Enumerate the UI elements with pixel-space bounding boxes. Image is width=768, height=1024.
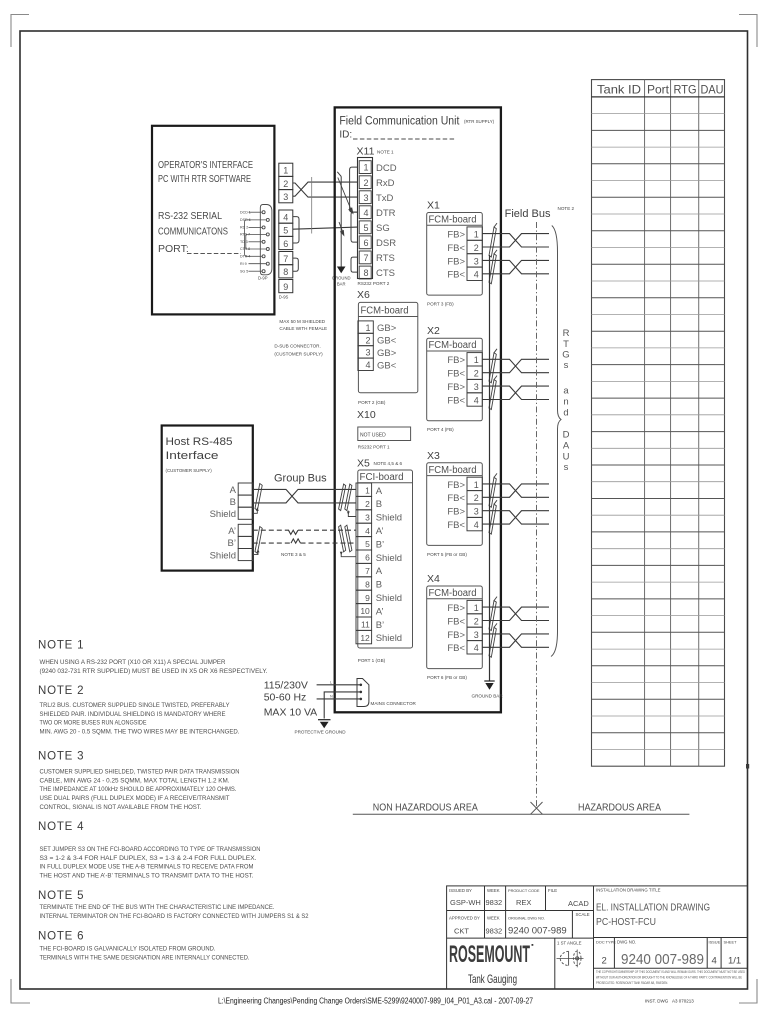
svg-text:4: 4 [712, 956, 717, 967]
svg-text:D: D [563, 430, 570, 441]
svg-text:GSP-WH: GSP-WH [450, 898, 481, 907]
svg-text:FB<: FB< [447, 369, 465, 380]
svg-text:(9240 032-731 RTR SUPPLIED) MU: (9240 032-731 RTR SUPPLIED) MUST BE USED… [40, 668, 268, 675]
svg-text:DOC TYPE: DOC TYPE [596, 940, 616, 945]
svg-text:2: 2 [474, 243, 479, 253]
svg-text:A: A [376, 566, 383, 577]
svg-text:(CUSTOMER SUPPLY): (CUSTOMER SUPPLY) [166, 468, 213, 473]
svg-text:WITHOUT OUR AUTHORIZATION OR B: WITHOUT OUR AUTHORIZATION OR BROUGHT TO … [596, 975, 743, 979]
svg-text:s: s [564, 462, 569, 473]
svg-text:7: 7 [365, 566, 370, 576]
svg-text:ACAD: ACAD [568, 899, 589, 908]
shield symbol X4 pair [489, 597, 497, 631]
svg-text:Shield: Shield [210, 550, 236, 561]
svg-text:B’: B’ [376, 620, 384, 631]
svg-text:NON HAZARDOUS AREA: NON HAZARDOUS AREA [373, 802, 478, 814]
svg-text:6: 6 [283, 239, 288, 249]
svg-text:INST. DWG A3 070213: INST. DWG A3 070213 [645, 999, 694, 1004]
svg-text:INSTALLATION DRAWING TITLE: INSTALLATION DRAWING TITLE [596, 888, 661, 893]
svg-text:NOTE 6: NOTE 6 [38, 931, 84, 943]
svg-text:DCD: DCD [376, 163, 397, 174]
svg-text:(CUSTOMER SUPPLY): (CUSTOMER SUPPLY) [274, 352, 323, 357]
svg-text:R: R [563, 328, 570, 339]
svg-text:115/230V: 115/230V [264, 680, 308, 692]
shield symbol X2 pair [489, 349, 497, 383]
svg-text:THE IMPEDANCE AT 100kHz SHOULD: THE IMPEDANCE AT 100kHz SHOULD BE APPROX… [40, 786, 237, 793]
field bus twisted pair at X3 [482, 511, 549, 524]
field bus twisted pair at X3 [482, 484, 549, 497]
svg-text:SET JUMPER S3 ON THE FCI-BOARD: SET JUMPER S3 ON THE FCI-BOARD ACCORDING… [40, 846, 261, 853]
svg-text:CONTROL, SIGNAL IS NOT AVAILAB: CONTROL, SIGNAL IS NOT AVAILABLE FROM TH… [40, 804, 202, 811]
svg-text:RD 2: RD 2 [240, 226, 248, 230]
area labels [353, 813, 690, 815]
svg-text:BAR: BAR [337, 282, 346, 287]
svg-text:9: 9 [283, 282, 288, 292]
svg-text:4: 4 [474, 395, 479, 405]
svg-text:SG: SG [376, 223, 390, 234]
svg-text:3: 3 [283, 192, 288, 202]
svg-text:NOTE 4: NOTE 4 [38, 821, 84, 833]
svg-text:HAZARDOUS AREA: HAZARDOUS AREA [578, 802, 661, 814]
svg-text:Tank Gauging: Tank Gauging [468, 972, 517, 986]
svg-text:WEEK: WEEK [487, 888, 500, 893]
svg-text:NOTE 1: NOTE 1 [38, 640, 84, 652]
shield symbol X4 pair [489, 623, 497, 657]
svg-text:ISSUE: ISSUE [709, 940, 721, 945]
svg-text:TERMINATE THE END OF THE BUS W: TERMINATE THE END OF THE BUS WITH THE CH… [40, 904, 275, 911]
field bus twisted pair at X2 [482, 359, 549, 372]
svg-text:EL. INSTALLATION DRAWING: EL. INSTALLATION DRAWING [596, 903, 710, 914]
svg-text:PORT:: PORT: [158, 243, 189, 255]
svg-text:11: 11 [361, 620, 370, 630]
shield symbol X2 pair [489, 376, 497, 410]
svg-text:RS232 PORT 1: RS232 PORT 1 [358, 445, 390, 450]
tank table (Tank ID / Port / RTG / DAU) [592, 80, 725, 767]
svg-text:1 ST ANGLE: 1 ST ANGLE [557, 941, 582, 946]
svg-text:CUSTOMER SUPPLIED SHIELDED, TW: CUSTOMER SUPPLIED SHIELDED, TWISTED PAIR… [40, 769, 240, 776]
svg-text:4: 4 [474, 520, 479, 530]
svg-text:INTERNAL TERMINATOR ON THE FCI: INTERNAL TERMINATOR ON THE FCI-BOARD IS … [40, 913, 309, 920]
wire pair A&#39;/B&#39; (dashed, twisted) [253, 530, 356, 543]
svg-text:X3: X3 [427, 450, 440, 462]
svg-text:5: 5 [365, 539, 370, 549]
svg-text:Interface: Interface [166, 450, 219, 462]
svg-text:a: a [563, 386, 569, 397]
svg-text:PROTECTIVE GROUND: PROTECTIVE GROUND [295, 730, 347, 735]
field bus twisted pair at X1 [482, 234, 549, 247]
svg-text:X10: X10 [357, 409, 376, 421]
svg-text:A’: A’ [376, 606, 384, 617]
svg-text:FB<: FB< [447, 643, 465, 654]
svg-text:4: 4 [283, 212, 288, 222]
svg-text:2: 2 [363, 178, 368, 188]
svg-text:8: 8 [363, 268, 368, 278]
svg-text:FB>: FB> [447, 256, 465, 267]
svg-text:COMMUNICATONS: COMMUNICATONS [158, 226, 228, 238]
svg-text:9240 007-989: 9240 007-989 [508, 926, 567, 937]
svg-text:RS232 PORT 2: RS232 PORT 2 [358, 281, 390, 286]
FCM board X3 [427, 450, 483, 557]
svg-text:FB>: FB> [447, 230, 465, 241]
svg-text:CTS: CTS [376, 268, 395, 279]
wire pair A/B (solid, twisted) [253, 489, 356, 503]
svg-text:1: 1 [474, 603, 479, 613]
jumper loops on X11 (1-4, 4-6, 7-8) [350, 167, 358, 272]
svg-text:5: 5 [363, 223, 368, 233]
svg-text:7: 7 [283, 254, 288, 264]
svg-text:TERMINALS WITH THE SAME DESIGN: TERMINALS WITH THE SAME DESIGNATION ARE … [40, 954, 250, 961]
svg-text:3: 3 [474, 630, 479, 640]
title block values [450, 898, 589, 936]
svg-text:REX: REX [516, 898, 531, 907]
svg-text:NOTE 3 & 5: NOTE 3 & 5 [281, 552, 306, 557]
svg-text:4: 4 [365, 526, 370, 536]
svg-text:9: 9 [365, 593, 370, 603]
fold mark on right border [746, 764, 749, 769]
Host RS-485 interface box [162, 426, 253, 571]
mains wires [317, 685, 360, 719]
svg-text:Port: Port [647, 83, 670, 97]
svg-text:2: 2 [365, 499, 370, 509]
svg-text:Tank ID: Tank ID [597, 83, 641, 97]
svg-text:CKT: CKT [454, 927, 469, 936]
svg-text:X1: X1 [427, 200, 440, 212]
svg-text:2: 2 [474, 369, 479, 379]
svg-text:PORT 3 (FB): PORT 3 (FB) [427, 302, 454, 307]
copyright text [596, 970, 745, 985]
svg-text:G: G [562, 350, 569, 361]
svg-text:L: L [330, 681, 332, 685]
svg-text:X11: X11 [357, 146, 375, 158]
svg-text:A: A [563, 441, 570, 452]
svg-text:ISSUED BY: ISSUED BY [449, 888, 472, 893]
svg-text:PC-HOST-FCU: PC-HOST-FCU [596, 917, 656, 928]
svg-text:1: 1 [365, 323, 370, 333]
svg-text:FCI-board: FCI-board [360, 472, 404, 483]
svg-text:GB>: GB> [377, 348, 397, 359]
mains supply labels [264, 680, 318, 719]
svg-text:GB<: GB< [377, 360, 397, 371]
svg-text:CABLE WITH FEMALE: CABLE WITH FEMALE [279, 326, 327, 331]
svg-text:X5: X5 [357, 458, 370, 470]
svg-text:A’: A’ [376, 526, 384, 537]
svg-text:5: 5 [283, 226, 288, 236]
svg-text:PORT 4 (FB): PORT 4 (FB) [427, 427, 454, 432]
svg-text:SCALE: SCALE [576, 912, 590, 917]
svg-text:Shield: Shield [376, 513, 402, 524]
jumper loops on D-9S side [293, 217, 299, 272]
svg-text:FCM-board: FCM-board [429, 215, 477, 226]
svg-text:A: A [230, 485, 237, 496]
svg-text:B’: B’ [376, 539, 384, 550]
svg-text:3: 3 [474, 256, 479, 266]
cable note text [274, 319, 327, 357]
svg-text:RTS 7: RTS 7 [240, 233, 250, 237]
svg-text:PROSECUTED. ROSEMOUNT TANK RAD: PROSECUTED. ROSEMOUNT TANK RADAR AB, SWE… [596, 981, 668, 985]
svg-text:NOTE 2: NOTE 2 [38, 685, 84, 697]
svg-text:Field Bus: Field Bus [505, 208, 551, 220]
svg-text:GROUND BAR: GROUND BAR [472, 694, 504, 699]
svg-text:8: 8 [365, 579, 370, 589]
svg-text:FB<: FB< [447, 520, 465, 531]
svg-text:D-9P: D-9P [258, 276, 268, 281]
svg-text:U: U [563, 452, 570, 463]
svg-text:FCM-board: FCM-board [429, 588, 477, 599]
svg-text:B: B [376, 580, 382, 591]
svg-text:1: 1 [365, 486, 370, 496]
svg-text:RI 9: RI 9 [240, 262, 247, 266]
svg-text:7: 7 [363, 253, 368, 263]
terminal block X5 FCI-board [356, 458, 413, 664]
svg-text:MAX 50 M SHIELDED: MAX 50 M SHIELDED [279, 319, 325, 324]
svg-text:TWO OR MORE BUSES RUN ALONGSID: TWO OR MORE BUSES RUN ALONGSIDE [40, 720, 147, 727]
shield symbol X3 pair [489, 500, 497, 534]
svg-text:1: 1 [474, 480, 479, 490]
svg-text:NOTE 3: NOTE 3 [38, 751, 84, 763]
shield ground bus line to ground bar [489, 255, 491, 681]
svg-text:CTS 8: CTS 8 [240, 247, 250, 251]
RTGs and DAUs vertical text [562, 328, 570, 473]
field bus twisted pair at X4 [482, 607, 549, 620]
svg-text:Group Bus: Group Bus [274, 473, 327, 485]
svg-text:FB>: FB> [447, 355, 465, 366]
svg-text:Shield: Shield [376, 553, 402, 564]
svg-text:FB<: FB< [447, 395, 465, 406]
svg-text:Shield: Shield [376, 633, 402, 644]
svg-text:TRL/2 BUS. CUSTOMER SUPPLIED S: TRL/2 BUS. CUSTOMER SUPPLIED SINGLE TWIS… [40, 702, 231, 709]
svg-text:4: 4 [474, 643, 479, 653]
svg-text:USE DUAL PAIRS (FULL DUPLEX MO: USE DUAL PAIRS (FULL DUPLEX MODE) IF A R… [40, 795, 230, 802]
svg-text:T: T [563, 339, 569, 350]
svg-text:1/1: 1/1 [728, 956, 741, 967]
svg-text:d: d [563, 408, 568, 419]
svg-text:PC WITH RTR SOFTWARE: PC WITH RTR SOFTWARE [158, 173, 251, 185]
big curly brace [551, 226, 561, 657]
svg-text:FCM-board: FCM-board [361, 306, 409, 317]
svg-text:RS-232 SERIAL: RS-232 SERIAL [158, 210, 222, 222]
svg-text:4: 4 [363, 208, 368, 218]
svg-text:RTS: RTS [376, 253, 395, 264]
svg-text:FB>: FB> [447, 603, 465, 614]
svg-text:S3 = 1-2 & 3-4 FOR HALF DUPLEX: S3 = 1-2 & 3-4 FOR HALF DUPLEX, S3 = 1-3… [40, 855, 257, 862]
svg-text:Shield: Shield [376, 593, 402, 604]
svg-text:A: A [376, 486, 383, 497]
svg-text:GB<: GB< [377, 336, 397, 347]
svg-text:FCM-board: FCM-board [429, 465, 477, 476]
svg-text:D-9S: D-9S [279, 295, 289, 300]
svg-text:12: 12 [360, 633, 370, 643]
shield symbols X5 side [339, 484, 356, 557]
svg-text:D-SUB CONNECTOR.: D-SUB CONNECTOR. [274, 344, 320, 349]
svg-text:FB<: FB< [447, 493, 465, 504]
svg-text:FB<: FB< [447, 616, 465, 627]
svg-text:NOTE 5: NOTE 5 [38, 890, 84, 902]
svg-text:X4: X4 [427, 573, 440, 585]
svg-text:1: 1 [474, 230, 479, 240]
svg-text:DAU: DAU [701, 83, 724, 97]
svg-text:3: 3 [363, 193, 368, 203]
svg-text:DTR 4: DTR 4 [240, 255, 250, 259]
svg-text:FCM-board: FCM-board [429, 340, 477, 351]
svg-text:MAX 10 VA: MAX 10 VA [264, 707, 318, 719]
svg-text:IN FULL DUPLEX MODE USE THE A-: IN FULL DUPLEX MODE USE THE A-B TERMINAL… [40, 864, 254, 871]
svg-text:6: 6 [363, 238, 368, 248]
mains connector [357, 679, 369, 707]
svg-text:3: 3 [474, 382, 479, 392]
svg-text:(RTR SUPPLY): (RTR SUPPLY) [464, 119, 495, 124]
svg-text:SG 5: SG 5 [240, 269, 248, 273]
svg-text:NOT USED: NOT USED [360, 433, 386, 439]
svg-text:2: 2 [602, 956, 607, 967]
field bus twisted pair at X1 [482, 260, 549, 273]
svg-text:PRODUCT CODE: PRODUCT CODE [508, 888, 540, 893]
svg-text:3: 3 [365, 348, 370, 358]
svg-text:CABLE, MIN AWG 24 - 0.25 SQMM,: CABLE, MIN AWG 24 - 0.25 SQMM, MAX TOTAL… [40, 777, 230, 784]
svg-text:PORT 1 (GB): PORT 1 (GB) [358, 658, 386, 663]
svg-text:1: 1 [474, 355, 479, 365]
svg-text:B’: B’ [228, 538, 236, 549]
svg-text:RxD: RxD [376, 178, 395, 189]
svg-text:WHEN USING A RS-232 PORT (X10: WHEN USING A RS-232 PORT (X10 OR X11) A … [40, 659, 226, 666]
title block [447, 886, 748, 989]
terminal strip D-9S (9 pins) [279, 163, 293, 293]
svg-text:L:\Engineering Changes\Pending: L:\Engineering Changes\Pending Change Or… [218, 997, 533, 1006]
svg-text:A’: A’ [228, 526, 236, 537]
field bus twisted pair at X2 [482, 386, 549, 399]
boundary X mark [531, 802, 543, 814]
svg-text:RTG: RTG [674, 83, 697, 97]
svg-text:NOTE 2: NOTE 2 [558, 206, 575, 211]
terminal block X6 FCM-board [357, 289, 418, 405]
svg-text:PORT 5 (FB or GB): PORT 5 (FB or GB) [427, 552, 467, 557]
svg-text:TxD: TxD [376, 193, 394, 204]
svg-text:OPERATOR'S INTERFACE: OPERATOR'S INTERFACE [158, 159, 253, 171]
svg-text:X6: X6 [357, 289, 370, 301]
svg-text:10: 10 [360, 606, 370, 616]
first angle projection symbol [557, 950, 584, 968]
svg-text:2: 2 [283, 179, 288, 189]
svg-text:FB>: FB> [447, 480, 465, 491]
svg-text:THE COPYRIGHT/OWNERSHIP OF THI: THE COPYRIGHT/OWNERSHIP OF THIS DOCUMENT… [596, 970, 745, 974]
svg-text:Shield: Shield [210, 509, 236, 520]
svg-text:GB>: GB> [377, 323, 397, 334]
FCM board X4 [427, 573, 483, 680]
svg-text:SHIELDED PAIR. INDIVIDUAL SHIE: SHIELDED PAIR. INDIVIDUAL SHIELDING IS M… [40, 711, 226, 718]
cable marker line [311, 177, 313, 234]
svg-text:FB>: FB> [447, 382, 465, 393]
svg-text:FILE: FILE [548, 888, 557, 893]
shield symbol X3 pair [489, 473, 497, 507]
FCM board X2 [427, 325, 483, 432]
svg-text:THE FCI-BOARD IS GALVANICALLY: THE FCI-BOARD IS GALVANICALLY ISOLATED F… [40, 946, 216, 953]
svg-text:APPROVED BY: APPROVED BY [449, 916, 480, 921]
svg-text:6: 6 [365, 553, 370, 563]
svg-text:X2: X2 [427, 325, 440, 337]
svg-text:B: B [230, 497, 236, 508]
svg-text:ID:: ID: [339, 130, 352, 141]
svg-text:N: N [330, 695, 333, 699]
svg-text:s: s [564, 360, 569, 371]
svg-text:9832: 9832 [486, 898, 503, 907]
svg-text:4: 4 [474, 270, 479, 280]
svg-text:8: 8 [283, 267, 288, 277]
svg-text:1: 1 [363, 163, 368, 173]
shield symbol X1 pair [489, 250, 497, 284]
svg-text:Host RS-485: Host RS-485 [166, 436, 233, 448]
svg-text:FB<: FB< [447, 243, 465, 254]
svg-text:50-60 Hz: 50-60 Hz [264, 692, 307, 704]
svg-text:1: 1 [283, 166, 288, 176]
RS-232 wires PC to X11 (crossover) [293, 182, 358, 229]
field bus twisted pair at X4 [482, 634, 549, 647]
svg-text:THE HOST AND THE A’-B’ TERMINA: THE HOST AND THE A’-B’ TERMINALS TO TRAN… [40, 873, 254, 880]
svg-text:2: 2 [474, 616, 479, 626]
ground bar symbol lower right [484, 680, 494, 682]
svg-text:PORT 2 (GB): PORT 2 (GB) [358, 400, 386, 405]
svg-text:NOTE 4,5 & 6: NOTE 4,5 & 6 [374, 461, 403, 466]
svg-text:4: 4 [365, 360, 370, 370]
svg-text:MIN. AWG 20 - 0.5 SQMM. THE TW: MIN. AWG 20 - 0.5 SQMM. THE TWO WIRES MA… [40, 729, 240, 736]
svg-text:DTR: DTR [376, 208, 396, 219]
svg-text:SHEET: SHEET [724, 940, 738, 945]
svg-text:n: n [563, 397, 568, 408]
svg-text:MAINS CONNECTOR: MAINS CONNECTOR [371, 701, 417, 706]
svg-text:NOTE 1: NOTE 1 [377, 150, 394, 155]
svg-text:3: 3 [365, 512, 370, 522]
svg-text:9240 007-989: 9240 007-989 [621, 951, 704, 968]
svg-text:DSR 6: DSR 6 [240, 218, 251, 222]
svg-text:Field Communication Unit: Field Communication Unit [339, 116, 460, 128]
protective ground symbol [318, 719, 331, 721]
svg-text:TD 3: TD 3 [240, 240, 248, 244]
ground bar at X11 (RS232 shield) [337, 172, 341, 267]
svg-text:WEEK: WEEK [487, 916, 500, 921]
svg-text:DWG NO.: DWG NO. [617, 940, 636, 945]
svg-text:3: 3 [474, 507, 479, 517]
svg-text:FB<: FB< [447, 270, 465, 281]
svg-text:ROSEMOUNT: ROSEMOUNT [449, 941, 530, 968]
FCM board X1 [427, 200, 483, 307]
svg-text:DSR: DSR [376, 238, 396, 249]
terminal block X11 [357, 146, 397, 287]
shield symbol X1 pair [489, 223, 497, 257]
svg-text:FB>: FB> [447, 507, 465, 518]
svg-text:PORT 6 (FB or GB): PORT 6 (FB or GB) [427, 675, 467, 680]
svg-text:2: 2 [474, 493, 479, 503]
annotation arrows near X11 [338, 178, 353, 236]
svg-text:DCD 1: DCD 1 [240, 210, 251, 214]
title block small labels [449, 888, 737, 946]
shield symbols host side [253, 484, 262, 555]
svg-text:9832: 9832 [486, 927, 503, 936]
D-sub connector D-9P [245, 205, 272, 275]
svg-text:FB>: FB> [447, 630, 465, 641]
hazardous area boundary dash-dot line [536, 222, 538, 808]
svg-text:2: 2 [365, 335, 370, 345]
Field Communication Unit box [335, 107, 501, 712]
terminal block X10 (not used) [357, 409, 411, 450]
svg-text:B: B [376, 499, 382, 510]
svg-text:ORIGINAL DWG NO.: ORIGINAL DWG NO. [508, 916, 545, 921]
operator interface PC box [152, 126, 274, 315]
